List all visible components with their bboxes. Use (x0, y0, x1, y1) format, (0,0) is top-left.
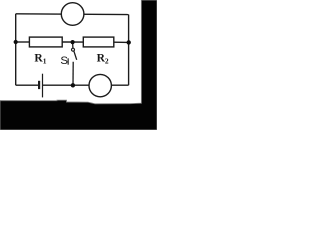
meter (bottom, unlabeled circle) (89, 74, 111, 96)
battery: negative plate (short thick) (38, 81, 40, 89)
node: junction on right wire at middle branch (127, 40, 131, 44)
meter (top, unlabeled circle) (61, 3, 84, 26)
node: junction at switch bottom on bottom wire (71, 83, 75, 87)
resistor R1 (box) (29, 37, 62, 47)
wire: middle branch left segment (16, 41, 30, 43)
wire: top side of outer loop (16, 13, 129, 16)
switch S1: stub from middle wire (72, 42, 74, 48)
resistor R2 (box) (83, 37, 114, 47)
switch S1: blade (open) (74, 51, 77, 60)
svg-text:S: S (60, 55, 68, 67)
wire: middle branch right segment (114, 41, 129, 43)
wire: left side of outer loop (15, 14, 17, 85)
node: junction on left wire at middle branch (14, 40, 18, 44)
switch S1: pivot circle (72, 48, 75, 51)
wire: bottom side of outer loop (16, 84, 129, 86)
node: junction at switch top on middle branch (71, 40, 75, 44)
battery: positive plate (long thin) (42, 74, 43, 98)
wire: middle branch center segment (62, 41, 83, 43)
switch S1: lower lead to bottom wire (72, 62, 74, 86)
label S subscript 1 (68, 58, 69, 64)
wire: right side of outer loop (128, 15, 130, 86)
scan border bands (background) (0, 0, 157, 130)
